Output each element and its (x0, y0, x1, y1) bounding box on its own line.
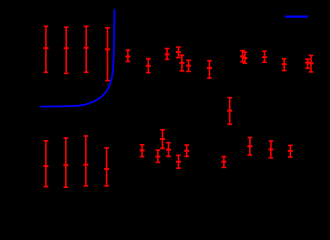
error bar S1 (125, 50, 130, 61)
error bar B5 (140, 145, 145, 157)
error bar S2 (146, 59, 151, 73)
error bar B3 (83, 136, 88, 186)
error bar B11 (221, 157, 226, 168)
error bar S7 (207, 61, 212, 78)
model curve (blue) (41, 10, 115, 107)
error bar T1 (43, 26, 48, 72)
error bar G1 (227, 98, 232, 125)
error bar B10 (184, 145, 189, 156)
error bar B6 (155, 150, 160, 162)
error bar B13 (268, 141, 273, 158)
error bar S4 (176, 47, 181, 58)
error bar B2 (63, 138, 68, 187)
error bar S9 (242, 52, 247, 63)
error bar T3 (84, 26, 89, 72)
error bar S13 (309, 55, 314, 72)
error bar B14 (288, 145, 293, 157)
error bar B8 (166, 143, 171, 157)
error bar B12 (247, 138, 252, 156)
error bar B4 (104, 148, 109, 186)
error bar S8 (240, 51, 245, 62)
error bar S5 (179, 55, 184, 71)
error bar T4 (105, 28, 110, 81)
error bar B7 (160, 130, 165, 149)
error bar S10 (262, 51, 267, 62)
error bar B9 (176, 155, 181, 168)
legend line (blue) (285, 16, 308, 18)
error bar B1 (43, 141, 48, 187)
error bar S6 (186, 60, 191, 71)
error bar T2 (64, 27, 69, 73)
error bar S11 (282, 59, 287, 71)
error bar S3 (165, 49, 170, 60)
error bar S12 (305, 59, 310, 68)
